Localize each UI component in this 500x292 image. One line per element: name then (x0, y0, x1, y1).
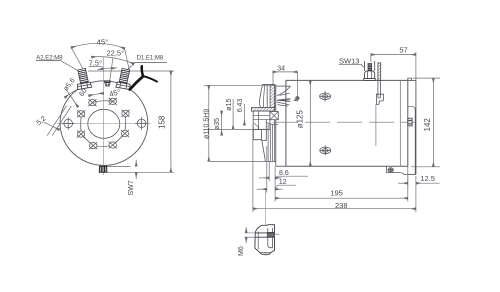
screw B top-right (109, 98, 117, 105)
flange horn top (259, 85, 267, 108)
svg-text:45°: 45° (97, 38, 108, 47)
brush holder lower wing (277, 102, 290, 105)
dark thread engagement box (267, 232, 274, 237)
small screw top center of housing (104, 81, 110, 86)
screw C upper-left (77, 110, 85, 117)
7.5 deg radial line through top screw (110, 58, 114, 83)
svg-text:ø110.5H9: ø110.5H9 (204, 109, 211, 139)
motor body rectangle (286, 80, 408, 166)
bracket tab above body (408, 78, 412, 80)
bracket inner inset contour (408, 107, 415, 174)
svg-text:ø35: ø35 (214, 118, 221, 130)
158 dimension right side of end view (170, 71, 172, 172)
dim arc 22.5 deg (92, 57, 135, 64)
bearing boss lower with fillet (266, 120, 278, 125)
left stud axis extension line (71, 48, 84, 72)
12.5 dimension bottom right (407, 176, 409, 188)
label M6 rotated (238, 246, 245, 256)
svg-text:D1,E1;M8: D1,E1;M8 (137, 56, 164, 62)
detail outline shaft end (255, 225, 275, 253)
SW7 hex stud bottom (99, 166, 107, 172)
svg-text:ø125: ø125 (296, 110, 305, 129)
right stud base (116, 82, 131, 90)
dim arc 7,5 deg (104, 67, 111, 69)
svg-text:6.43: 6.43 (237, 99, 244, 113)
bolt circle arc bottom pair with arrows (97, 145, 109, 148)
svg-text:34: 34 (277, 65, 285, 72)
flange inner verticals (267, 124, 269, 161)
foot under body (387, 166, 408, 174)
flange bottom (265, 160, 276, 162)
SW13 hex nut (364, 71, 376, 81)
bolt screws ring (62, 98, 148, 149)
svg-text:SW7: SW7 (128, 180, 135, 195)
brush holder upper wing (277, 86, 291, 96)
left terminal stud M8 (78, 68, 88, 83)
svg-text:5,2: 5,2 (35, 115, 47, 127)
svg-text:158: 158 (157, 115, 166, 129)
center pilot bore (88, 109, 120, 138)
through-bolt bottom (eye) (320, 145, 331, 155)
svg-text:ø15: ø15 (226, 99, 233, 111)
inner left double line (257, 232, 259, 250)
rear stud lug clamp (376, 94, 383, 104)
ring connector C-G (80, 117, 82, 131)
right terminal stud M8 (119, 68, 129, 83)
screw D upper-right (121, 110, 129, 117)
svg-text:45°: 45° (108, 87, 121, 98)
ring connector H-J (115, 136, 122, 143)
left stud base (77, 82, 92, 90)
terminal shroud side walls (364, 61, 366, 71)
horizontal centerline (57, 123, 151, 125)
bracket plate right (415, 80, 417, 174)
label dia 5,6 rotated with leader to upper-left screw (63, 77, 77, 92)
svg-text:142: 142 (423, 118, 432, 132)
bearing box with X (270, 112, 278, 120)
foot bolt (388, 168, 393, 173)
ring connector G-I (83, 137, 90, 144)
detail centerline (265, 190, 267, 255)
gasket hatched strip (251, 108, 274, 112)
svg-text:57: 57 (399, 45, 407, 54)
screw I bottom-left (89, 142, 97, 149)
label 158 rotated (157, 115, 166, 129)
mounting hole F right (135, 117, 148, 130)
brush holder top line (276, 85, 291, 87)
label 45 inner rotated with leader (108, 87, 121, 98)
screw G lower-left (77, 131, 85, 138)
ring connector D-H (124, 117, 127, 131)
dia125 dimension inside body (309, 81, 311, 167)
thread lines across (255, 232, 274, 234)
label 5,2 rotated (35, 115, 47, 127)
svg-text:SW13: SW13 (339, 56, 359, 65)
top reference line y=85.3 (204, 84, 275, 86)
bolt circle arc top pair (92, 101, 112, 103)
6.43 dim line with arrow (243, 104, 245, 125)
shaft key curve (254, 123, 258, 129)
svg-text:22,5°: 22,5° (107, 49, 125, 58)
M6 dim lines (245, 232, 255, 234)
dia15 dim line with bottom arrow (232, 99, 234, 129)
svg-text:12.5: 12.5 (420, 174, 435, 183)
158 top extension line (88, 70, 174, 72)
vertical centerline (102, 57, 104, 175)
shaft second step (262, 139, 267, 141)
rear stud shank into body (377, 80, 379, 97)
shaft tip segment (253, 128, 266, 130)
screw A top-left (88, 99, 96, 106)
dia35 dim line (221, 111, 223, 135)
dim arc 45 deg inner top with arrows (89, 93, 104, 96)
inner thread pocket (268, 228, 273, 248)
bracket hinge block (408, 118, 412, 126)
motor outer housing ellipse (60, 81, 148, 166)
screw H lower-right (121, 130, 129, 137)
svg-text:195: 195 (330, 189, 343, 198)
screw J bottom-right (109, 141, 117, 148)
mounting hole E left (62, 117, 75, 130)
SW7 dim lines (107, 165, 131, 167)
label SW7 rotated (128, 180, 135, 195)
svg-text:ø5,6: ø5,6 (63, 77, 77, 92)
bottom reference line y=161.3 (209, 160, 268, 162)
5,2 leader with arrow (44, 122, 59, 130)
face plate front lines (274, 85, 276, 162)
boss edge line into body / body centerline dashes (273, 121, 415, 123)
right stud axis extension line (125, 49, 130, 72)
142 dimension right (413, 77, 441, 79)
flange block left (253, 111, 270, 129)
rear terminal stud hatched (378, 63, 381, 81)
label 60 rotated (78, 87, 88, 97)
black cable from right stud (130, 76, 143, 89)
dim arc 45 deg outer top (71, 43, 124, 48)
flange lower taper (262, 140, 265, 158)
body right seam (399, 80, 401, 166)
shaft top reference line y=129.4 (209, 128, 253, 130)
brush spring pennant (277, 99, 290, 102)
flange hatched rib (270, 85, 275, 108)
dim arc 60 deg upper-left (65, 84, 89, 97)
extension lines (252, 125, 254, 212)
gray stub right (275, 233, 280, 235)
svg-text:M6: M6 (238, 246, 245, 256)
leader arrowhead right of brush area (293, 99, 296, 101)
dia110.5H9 dim line (208, 85, 210, 161)
34 right extension with diamond arrow down (296, 72, 298, 98)
5,2 wall dim: oblique extension lines (47, 106, 66, 136)
bottom butt ellipse (260, 253, 271, 255)
through-bolt top (eye) (320, 91, 331, 101)
threaded stud stub (368, 64, 372, 71)
